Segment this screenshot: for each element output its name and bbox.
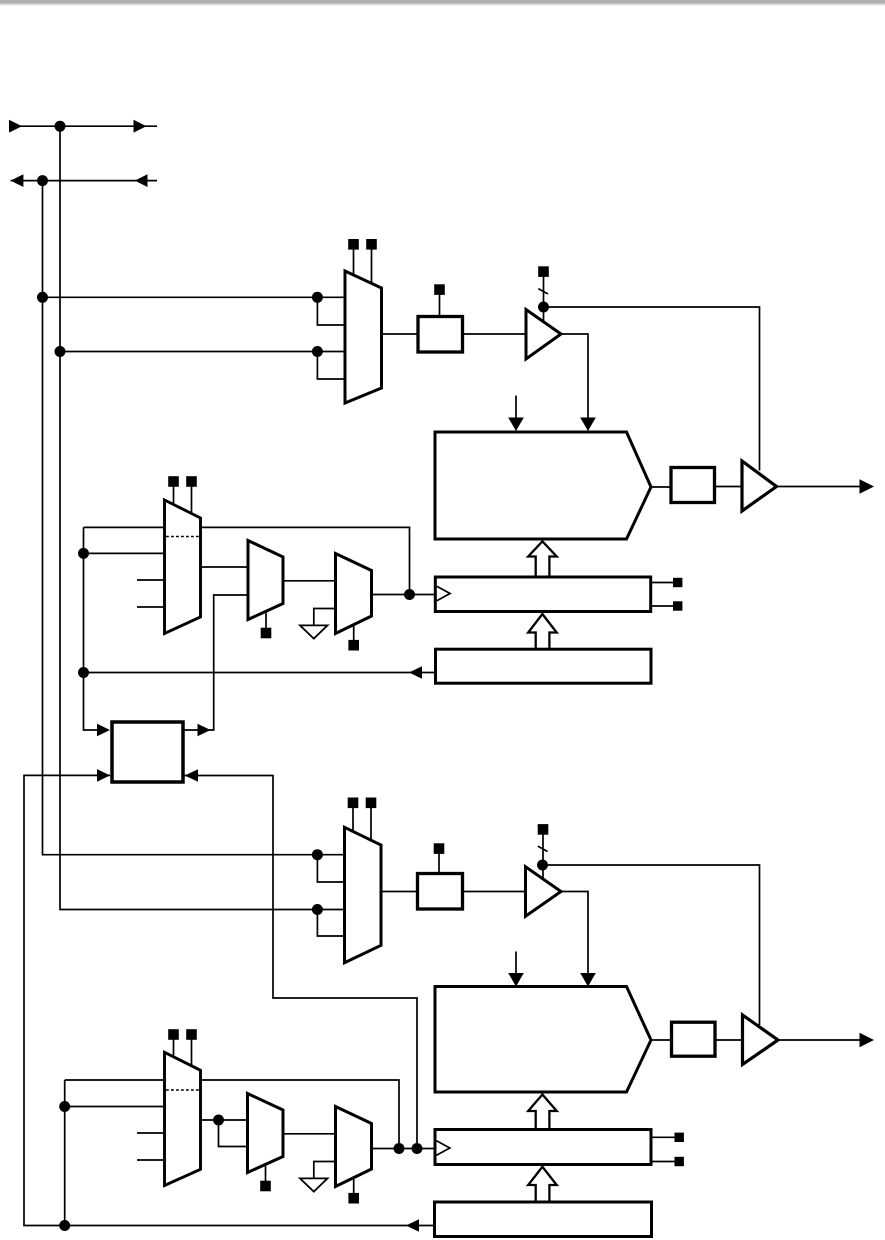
wire mux2b out branch to mux3b lower input: [219, 1120, 248, 1147]
wire mux2 stub input 4: [137, 606, 165, 608]
wire mux3 out to mux4: [283, 580, 336, 582]
wire mux1 to prescaler: [382, 333, 419, 335]
mux2 (tall secondary mux): [165, 500, 201, 634]
wire prescaler to gate: [463, 333, 527, 335]
arrowhead left on reg2 output: [409, 666, 422, 679]
mux3b (middle small mux bottom): [248, 1094, 284, 1173]
node dot mux1 branch2: [312, 346, 323, 357]
wire short label arrow shaft: [515, 396, 517, 420]
node dot bottom reg2b line: [59, 1220, 70, 1231]
wire bus line 1 (y=126): [9, 125, 157, 127]
wire ground to mux4 input: [314, 609, 336, 626]
wire output line with arrow: [777, 486, 862, 488]
mux3 (middle small mux): [248, 541, 283, 620]
wire mux1b to prescaler b: [381, 891, 418, 893]
config square below mux4b: [349, 1178, 359, 1203]
wire reg1 to TxCON square 2: [651, 605, 674, 607]
wire postscaler b to out triangle b: [715, 1039, 743, 1041]
bus-width slash tick b: [538, 846, 548, 851]
config square above gate b: [538, 825, 548, 835]
gate triangle (clock gate): [526, 310, 561, 360]
register buffer reg2 bottom: [435, 1202, 652, 1237]
wire sync bottom-right from bottom clock node: [183, 776, 417, 1149]
wire bus line 2 (y=181): [11, 180, 157, 182]
wire reg1 to TxCON square 1: [651, 582, 674, 584]
mux1b (bottom clock source mux): [345, 827, 382, 962]
arrowhead down into comparator (label arrow): [508, 418, 524, 432]
register TMR1H:TMR1L: [435, 577, 650, 612]
wire mux3b out to mux4b: [283, 1133, 336, 1135]
wire mux2 out to mux3: [201, 566, 249, 568]
arrowhead down into comparator (from gate): [580, 418, 596, 432]
node dot mux2b output branch: [213, 1115, 224, 1126]
ground symbol bottom: [300, 1178, 328, 1191]
wire prescaler b to gate b: [463, 891, 526, 893]
arrowhead into sync bottom-right: [185, 769, 198, 782]
block up-arrow comparator<-reg1: [528, 541, 557, 577]
wire gate node feedback to out gate: [544, 307, 760, 471]
wire reg1b to TxCON square 2: [651, 1161, 676, 1163]
node dot reg1b clock (2): [412, 1143, 423, 1154]
arrowhead left line2 mid: [135, 174, 148, 187]
wire mux2 pass-through bypass to reg clock node: [84, 527, 410, 594]
clock symbol reg1b: [437, 1141, 450, 1155]
config square above mux2 (2): [187, 477, 197, 514]
sync box: [112, 722, 183, 782]
config square above mux1b (2): [366, 798, 376, 841]
config square right of reg1 (2): [673, 601, 682, 610]
node dot reg1b clock (1): [394, 1143, 405, 1154]
mux4b (right small mux bottom): [336, 1107, 372, 1187]
node dot mux1 in1: [37, 292, 48, 303]
config square below mux3b: [261, 1165, 271, 1191]
arrowhead left line2 left: [11, 174, 24, 187]
wire T1OSI input to mux1: [60, 351, 345, 353]
wire mux1b input branch 1: [317, 855, 345, 882]
prescaler box top: [418, 317, 463, 353]
wire vertical bus x=60: [60, 126, 345, 909]
wire left node vertical x=83.5: [84, 527, 98, 730]
prescaler box bottom: [418, 874, 463, 910]
node dot line1: [55, 121, 66, 132]
config square above mux1 (2): [367, 240, 377, 285]
arrowhead down into comparator b (label arrow): [508, 973, 524, 987]
config square above mux2 (1): [169, 477, 179, 505]
wire gate out down to comparator: [561, 334, 588, 419]
mux1 (top clock source mux): [345, 271, 382, 403]
wire sync out to mux3 lower input: [183, 595, 248, 730]
arrowhead left on reg2b output: [406, 1219, 419, 1232]
block up-arrow reg1<-reg2: [528, 614, 557, 649]
wire short label arrow shaft b: [515, 952, 517, 976]
wire postscaler to out triangle: [715, 486, 743, 488]
wire mux1 input branch 2: [317, 352, 345, 380]
config square above mux1 (1): [349, 240, 359, 277]
wire mux2b out to mux3b: [201, 1119, 248, 1121]
wire mux1 input branch 1: [317, 297, 345, 325]
arrowhead out of sync top-right: [198, 724, 211, 737]
config square below mux4: [349, 625, 359, 650]
node dot on gate b: [537, 860, 548, 871]
postscaler box bottom: [672, 1022, 716, 1056]
node dot mux1b in 1: [312, 849, 323, 860]
node dot mux2b feed: [59, 1101, 70, 1112]
output triangle bottom: [743, 1015, 779, 1065]
wire gate enable stem: [543, 276, 545, 322]
config square above mux2b (1): [169, 1030, 179, 1058]
arrowhead right line1 left: [9, 120, 22, 133]
mux2b (tall secondary mux bottom): [165, 1052, 201, 1185]
postscaler box top: [671, 468, 715, 503]
block up-arrow reg1b<-reg2b: [528, 1167, 557, 1202]
config square right of reg1b (2): [675, 1157, 684, 1166]
wire mux2b stub input 3: [137, 1132, 165, 1134]
config square right of reg1 (1): [673, 578, 682, 587]
wire gate b out down to comparator b: [561, 892, 588, 976]
wire bottom reg node to sync bottom-left: [24, 775, 435, 1225]
config square below mux3: [261, 612, 271, 638]
config square above prescaler: [435, 285, 445, 317]
arrowhead right line1 mid: [134, 120, 147, 133]
ground symbol top: [300, 625, 328, 638]
wire mux2 stub input 3: [137, 579, 165, 581]
wire reg1b to TxCON square 1: [651, 1136, 676, 1138]
node dot line2: [37, 175, 48, 186]
config square above mux2b (2): [187, 1030, 197, 1067]
config square above prescaler b: [434, 844, 444, 874]
wire mux2b top input / bypass: [65, 1080, 399, 1149]
dashed divider in mux2b: [166, 1089, 199, 1091]
wire ground b to mux4b input: [314, 1162, 336, 1179]
top grey bar: [0, 0, 885, 4]
dashed divider in mux2: [166, 536, 199, 538]
node dot reg1 clock: [404, 589, 415, 600]
comparator pentagon bottom: [435, 987, 651, 1093]
register buffer reg2 top: [436, 649, 652, 683]
wire mux2 input 2: [84, 552, 165, 554]
wire output line b: [778, 1039, 861, 1041]
register TMR3H:TMR3L: [435, 1130, 651, 1165]
wire mux4 out to register clock: [372, 594, 436, 596]
config square right of reg1b (1): [675, 1133, 684, 1142]
output arrowhead bottom: [860, 1033, 875, 1047]
node dot reg2 line: [78, 667, 89, 678]
bus-width slash tick: [538, 289, 548, 294]
wire vertical bus x=42.5: [43, 181, 346, 855]
wire T1CKI input to mux1: [43, 296, 346, 298]
comparator pentagon top: [435, 432, 651, 539]
block up-arrow comparator b<-reg1b: [528, 1095, 557, 1130]
wire reg2 output to left node: [84, 672, 436, 674]
config square above gate: [539, 267, 549, 277]
gate triangle b: [526, 867, 562, 916]
wire mux2b input 2: [65, 1106, 165, 1108]
config square above mux1b (1): [348, 798, 358, 832]
wire mux2b left vertical x=64.7: [64, 1080, 66, 1226]
node dot mux2 input feed 1: [78, 548, 89, 559]
node dot on gate: [538, 302, 549, 313]
wire comparator b to postscaler b: [651, 1039, 672, 1041]
clock symbol reg1: [437, 586, 450, 600]
node dot mux1 in2: [55, 346, 66, 357]
arrowhead into sync bottom-left: [97, 769, 110, 782]
node dot mux1b in 2: [312, 904, 323, 915]
wire mux1b input branch 2: [317, 910, 345, 937]
wire mux2b stub input 4: [137, 1159, 165, 1161]
output arrowhead top: [860, 479, 875, 493]
output triangle top: [742, 461, 777, 511]
mux4 (right small mux): [336, 554, 372, 634]
wire gate b enable stem: [542, 834, 544, 879]
wire gate b node feedback to out gate b: [543, 865, 760, 1025]
wire comparator to postscaler box: [651, 486, 671, 488]
arrowhead down into comparator b (from gate): [580, 973, 596, 987]
node dot mux1 branch1: [312, 292, 323, 303]
wire mux4b out to register b clock: [372, 1148, 436, 1150]
arrowhead into sync top-left: [97, 724, 110, 737]
